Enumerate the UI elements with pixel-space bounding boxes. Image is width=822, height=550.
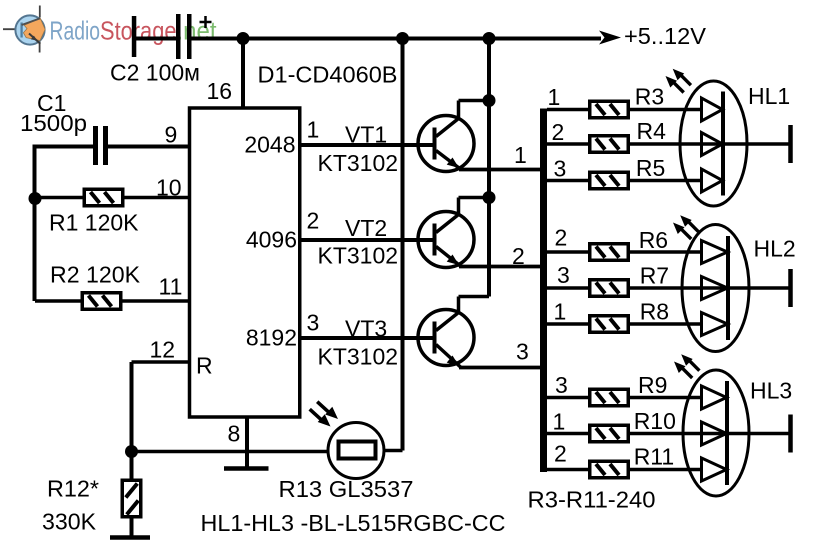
svg-text:330K: 330K: [42, 509, 97, 535]
svg-text:3: 3: [557, 262, 570, 288]
svg-text:1: 1: [554, 299, 567, 325]
svg-text:+5..12V: +5..12V: [624, 23, 707, 49]
svg-text:2: 2: [552, 119, 565, 145]
svg-text:4096: 4096: [246, 227, 297, 253]
svg-text:1: 1: [548, 84, 561, 110]
svg-text:2: 2: [554, 441, 567, 467]
svg-text:8192: 8192: [246, 325, 297, 351]
svg-text:3: 3: [307, 310, 320, 336]
svg-text:1: 1: [553, 409, 566, 435]
svg-text:R2 120K: R2 120K: [50, 262, 141, 288]
svg-text:R10: R10: [634, 408, 676, 434]
svg-text:KT3102: KT3102: [318, 150, 399, 176]
svg-text:1: 1: [514, 142, 527, 168]
svg-text:3: 3: [554, 156, 567, 182]
svg-text:R9: R9: [638, 372, 667, 398]
svg-text:HL1-HL3 -BL-L515RGBC-CC: HL1-HL3 -BL-L515RGBC-CC: [201, 510, 506, 536]
svg-text:Radio: Radio: [50, 16, 101, 46]
svg-text:3: 3: [555, 372, 568, 398]
svg-text:2: 2: [307, 208, 320, 234]
svg-text:HL3: HL3: [750, 378, 792, 404]
svg-text:1: 1: [307, 117, 320, 143]
svg-text:3: 3: [516, 339, 529, 365]
svg-text:1500p: 1500p: [20, 110, 87, 136]
svg-text:2048: 2048: [244, 132, 295, 158]
svg-text:Storage: Storage: [100, 16, 177, 46]
svg-text:2: 2: [555, 225, 568, 251]
svg-text:R1 120K: R1 120K: [49, 210, 139, 236]
svg-text:R4: R4: [637, 118, 667, 144]
svg-text:KT3102: KT3102: [318, 243, 399, 269]
svg-text:HL1: HL1: [748, 83, 790, 109]
svg-text:R3: R3: [635, 84, 664, 110]
svg-text:R: R: [196, 353, 213, 379]
svg-text:12: 12: [150, 337, 176, 363]
svg-text:2: 2: [512, 243, 525, 269]
svg-text:R13 GL3537: R13 GL3537: [279, 476, 414, 502]
svg-text:HL2: HL2: [754, 236, 796, 262]
svg-text:R3-R11-240: R3-R11-240: [528, 487, 656, 513]
svg-text:11: 11: [159, 274, 183, 300]
svg-text:KT3102: KT3102: [318, 344, 399, 370]
svg-text:VT1: VT1: [345, 122, 387, 148]
svg-text:.net: .net: [177, 16, 218, 46]
svg-text:R8: R8: [640, 299, 669, 325]
svg-text:D1-CD4060B: D1-CD4060B: [258, 62, 398, 88]
svg-text:C2 100м: C2 100м: [110, 60, 200, 86]
svg-text:R5: R5: [636, 155, 665, 181]
svg-text:R12*: R12*: [47, 476, 99, 502]
svg-text:9: 9: [165, 122, 178, 148]
svg-text:R7: R7: [640, 263, 669, 289]
svg-text:R6: R6: [639, 227, 668, 253]
svg-text:VT3: VT3: [345, 316, 387, 342]
svg-text:8: 8: [228, 421, 241, 447]
svg-text:16: 16: [207, 78, 233, 104]
svg-text:VT2: VT2: [345, 215, 387, 241]
svg-text:R11: R11: [634, 444, 675, 470]
svg-text:10: 10: [156, 175, 182, 201]
